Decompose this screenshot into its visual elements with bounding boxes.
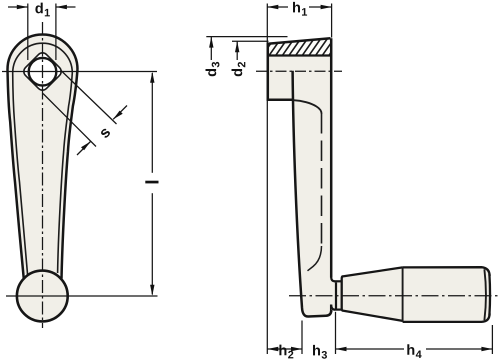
hub hatch band background [268, 38, 331, 55]
dimension d1: extension line right [55, 4, 57, 61]
crank arm outer contour [8, 35, 78, 70]
inner right taper line [58, 73, 73, 273]
hub left face [267, 43, 270, 101]
neck left face [335, 283, 337, 309]
grip cone top edge [342, 267, 403, 276]
hidden line (dashed) in arm [321, 113, 323, 246]
dimension d2: extension line [232, 40, 269, 42]
dimension s: lower arrow [77, 142, 91, 156]
neck top fillet from arm [331, 278, 334, 282]
bottom boss circle [17, 271, 68, 322]
label d2 (rotated) [232, 62, 246, 76]
arm right face below neck [330, 305, 333, 313]
horizontal centerline through boss / extension for l [6, 295, 158, 297]
dimension d2: arrow up [236, 41, 238, 60]
extension line from grip right end [491, 325, 493, 354]
neck fill [331, 281, 342, 309]
vertical centerline of arm [42, 22, 44, 328]
neck bottom edge [334, 309, 341, 311]
label h2 [279, 345, 293, 359]
dimension d3: extension line [206, 36, 287, 38]
neck top edge [334, 280, 341, 282]
horizontal centerline through hole / extension for l [2, 71, 157, 73]
hub hatching [254, 39, 340, 58]
dimension l: top arrow [150, 72, 154, 83]
hub and arm body fill [268, 38, 336, 316]
dimension s: upper extension line [61, 71, 117, 125]
inner left taper line [13, 73, 28, 275]
arm left edge [293, 71, 302, 308]
dimension d1: right arrow [56, 6, 76, 8]
hub boss bottom edge [267, 99, 293, 102]
tangent edge curve bottom [308, 246, 322, 271]
dimension h1: right extension line [331, 4, 333, 38]
dimension h4: line and arrows [336, 348, 405, 350]
left outer taper line [8, 70, 24, 280]
grip cylinder top edge [403, 267, 490, 276]
label h4 [407, 344, 421, 358]
label d1 [35, 3, 49, 17]
dimension d3: arrow up [210, 37, 212, 60]
bore circle d1 [29, 58, 57, 86]
label l (rotated) [145, 181, 158, 184]
grip right face [488, 274, 491, 316]
dimension d1: left arrow [8, 6, 28, 8]
arm bottom edge [302, 308, 331, 317]
hub hatch bottom edge [268, 54, 331, 56]
grip cone bottom edge [342, 311, 403, 321]
dimension l: bottom arrow [150, 285, 154, 296]
dimension l: line lower segment [151, 193, 153, 294]
extension line from neck left face [335, 312, 337, 354]
dimension h1: line and arrows [267, 6, 288, 8]
grip fill [342, 267, 490, 322]
tangent edge curve at hub [294, 100, 322, 113]
crank arm body fill [8, 35, 78, 274]
right outer taper line [62, 70, 78, 279]
label s [100, 128, 111, 139]
neck bottom fillet to arm [331, 305, 334, 310]
arm / hub right face [330, 38, 333, 277]
label h1 [293, 2, 307, 16]
dimension h1: left extension line (long, continues to bottom dims) [266, 4, 268, 355]
grip left face [341, 276, 344, 310]
dimension d1: extension line left [27, 4, 29, 61]
dimension l: line upper segment [151, 73, 153, 173]
grip cone/cylinder separator [402, 268, 404, 322]
hub centerline [256, 70, 342, 72]
label d3 (rotated) [206, 62, 220, 76]
grip cylinder bottom edge [403, 314, 490, 322]
dimension s: upper arrow [113, 106, 127, 120]
dimension s: lower extension line [43, 94, 96, 147]
grip end face edge [484, 269, 486, 320]
dimension h2: line and arrows [267, 348, 302, 350]
label h3 [313, 345, 327, 359]
bottom dimensions: extension line from arm bottom left [301, 321, 303, 355]
square hole (rotated, rounded corners) [22, 51, 64, 93]
grip axis centerline [289, 295, 498, 297]
inner fillet contour of head [13, 43, 73, 73]
hub top face [268, 38, 331, 44]
